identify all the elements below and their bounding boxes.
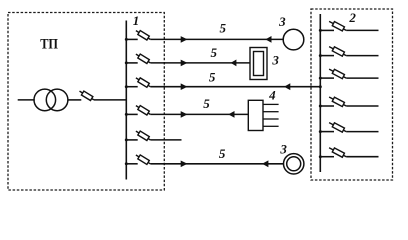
node: bus row 3 [125,85,128,88]
wire: row 5 stub [126,139,137,141]
wire: right row 6 out [346,156,378,158]
wire: right row 5 out [346,131,378,133]
svg-text:5: 5 [219,146,226,161]
arrow left row 1 [265,36,271,43]
switch-fuse row 4 [136,106,150,115]
node: bus row 1 [125,38,128,41]
arrow right row 6 [181,161,188,168]
arrow right row 4 [181,111,188,118]
node: right bus row 2 [319,54,322,57]
switch-fuse QS on transformer feeder [80,91,94,100]
svg-text:2: 2 [348,10,356,25]
wire: supply lead [18,99,35,101]
wire: transformer to switch [68,99,81,101]
wire: right row 2 stub [320,55,334,57]
wire: right row 3 stub [320,77,334,79]
wire: right row 3 out [346,77,378,79]
arrow left row 2 [231,60,237,67]
switch-fuse right row 6 [329,148,346,158]
svg-text:5: 5 [203,96,210,111]
wire: row 3 stub [126,86,137,88]
arrow right row 1 [181,36,188,43]
node: right bus row 3 [319,77,322,80]
switch-fuse row 2 [136,54,150,63]
device 3 row 2 (double rectangle) [250,48,267,80]
switch-fuse right row 3 [329,69,346,79]
switch-fuse row 3 [136,78,150,87]
transformer T [34,89,68,111]
wire: feeder row 1 [150,38,283,40]
wire: switch to busbar [94,99,127,101]
svg-text:3: 3 [279,141,287,156]
node: tie line joins right busbar [319,85,322,88]
wire: right row 1 stub [320,29,334,31]
wire: right row 6 stub [320,156,334,158]
wire: row 2 stub [126,62,137,64]
svg-text:5: 5 [209,70,216,85]
wire: right row 4 stub [320,105,334,107]
wire: feeder row 2 [150,62,250,64]
distribution cabinet enclosure (dashed) [311,9,393,180]
wire: row 6 stub [126,163,137,165]
wire: right row 5 stub [320,131,334,133]
arrow right row 3 [181,83,188,90]
node: right bus row 1 [319,29,322,32]
arrow left row 6 [262,160,268,167]
pins of block 4 [263,104,279,126]
wire: right row 4 out [346,105,378,107]
node: bus row 4 [125,113,128,116]
wire: row 1 stub [126,38,137,40]
node: right bus row 4 [319,105,322,108]
switch-fuse row 6 [136,155,150,164]
node: bus row 2 [125,61,128,64]
svg-text:5: 5 [211,45,218,60]
svg-text:1: 1 [133,13,140,28]
svg-text:3: 3 [271,52,279,67]
svg-text:3: 3 [278,14,286,29]
wire: feeder row 4 [150,113,248,115]
node: bus row 5 [125,138,128,141]
wire: right row 1 out [346,29,378,31]
node: right bus row 5 [319,130,322,133]
machine 3 row 6 (double circle) [284,154,304,174]
wire: tie feeder row 3 to right busbar [150,86,320,88]
arrow left row 3 [284,83,290,90]
control block 4 [248,100,263,130]
node: right bus row 6 [319,155,322,158]
svg-text:ТП: ТП [40,37,58,53]
svg-text:4: 4 [268,88,276,103]
switch-fuse right row 5 [329,123,346,133]
switch-fuse right row 4 [329,97,346,107]
motor 3 row 1 [283,29,304,50]
busbar (right cabinet) [319,14,321,172]
substation enclosure TP (dashed) [8,13,164,191]
wire: row 4 stub [126,113,137,115]
svg-text:5: 5 [219,20,226,35]
arrow right row 2 [181,60,188,67]
busbar (left switchboard) [125,21,127,180]
wire: spare feeder row 5 [150,139,181,141]
arrow left row 4 [228,111,234,118]
switch-fuse row 5 [136,131,150,140]
switch-fuse right row 2 [329,47,346,57]
switch-fuse right row 1 [329,21,346,31]
wire: right row 2 out [346,55,378,57]
wire: feeder row 6 [150,163,283,165]
switch-fuse row 1 [136,31,150,40]
node: bus row 6 [125,162,128,165]
